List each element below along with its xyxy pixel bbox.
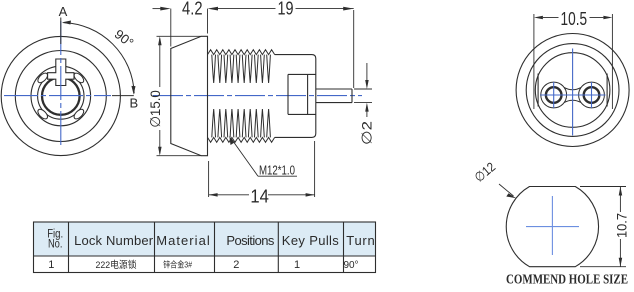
datum line A (black) (60, 18, 62, 45)
table column lines (68, 222, 70, 273)
right flat chord (606, 74, 608, 107)
hole vertical centerline (551, 196, 553, 255)
svg-text:19: 19 (278, 0, 294, 19)
keyway plus shape (48, 59, 74, 86)
rear horizontal centerline (540, 94, 606, 96)
bone waist top (564, 88, 581, 90)
svg-text:M12*1.0: M12*1.0 (259, 164, 295, 178)
notch oval top-left (36, 71, 49, 84)
svg-text:∅2: ∅2 (358, 121, 374, 145)
rear view outer circle (516, 34, 629, 147)
front view notch ring (38, 73, 84, 119)
svg-text:COMMEND HOLE SIZE: COMMEND HOLE SIZE (506, 273, 628, 288)
front view plug circle (42, 77, 80, 115)
dimension 4.2 (153, 9, 208, 47)
svg-text:Positions: Positions (226, 233, 275, 248)
rear vertical centerline (572, 49, 574, 136)
M12 leader line (232, 139, 259, 176)
svg-text:B: B (129, 96, 138, 111)
rear view inner circle (526, 44, 619, 137)
svg-text:1: 1 (48, 259, 54, 271)
notch oval top-right (72, 71, 85, 84)
dimension 14 (209, 141, 315, 197)
hole horizontal centerline (526, 226, 579, 228)
dimension 19 (217, 9, 354, 88)
svg-text:10.7: 10.7 (614, 213, 630, 238)
svg-text:No.: No. (48, 239, 63, 251)
datum tick at B (112, 95, 134, 97)
bone waist bottom (564, 100, 581, 102)
svg-text:222电源锁: 222电源锁 (96, 259, 137, 271)
thread grooves upper (212, 55, 271, 83)
rear body circle (535, 53, 610, 128)
bone outline left lobe (541, 82, 567, 108)
bone outline right lobe (579, 82, 605, 108)
table outer border (34, 222, 376, 273)
svg-text:14: 14 (250, 186, 269, 207)
svg-text:1: 1 (294, 259, 300, 271)
90 degree arc (63, 23, 134, 94)
dimension 10.7 (580, 187, 626, 267)
hole outline (circle with flats) (506, 187, 598, 267)
tail shaft (316, 89, 352, 103)
right eyelet (584, 87, 600, 103)
arc arrowhead at A (62, 21, 71, 25)
left eyelet vertical tick (553, 82, 555, 108)
front view inner bezel circle (15, 51, 106, 142)
front view vertical centerline (60, 21, 62, 146)
cam stop block (288, 74, 316, 114)
svg-text:Lock Number: Lock Number (74, 233, 154, 248)
thread crest lower (208, 137, 275, 142)
svg-text:10.5: 10.5 (561, 8, 588, 29)
svg-text:4.2: 4.2 (182, 0, 203, 19)
notch oval bottom-right (72, 108, 85, 121)
dimension phi2 (354, 63, 372, 117)
svg-text:2: 2 (233, 259, 239, 271)
left eyelet (546, 87, 562, 103)
front view face circle (31, 66, 91, 126)
table header background (34, 222, 376, 256)
right eyelet vertical tick (591, 82, 593, 108)
front view outer bezel circle (1, 36, 120, 155)
body behind threads (275, 55, 316, 138)
svg-text:Turn: Turn (346, 233, 375, 248)
front view horizontal centerline (4, 95, 111, 97)
dimension phi15 line (157, 36, 202, 155)
svg-text:Material: Material (156, 233, 210, 248)
thread crest upper (208, 50, 275, 55)
svg-text:A: A (59, 4, 68, 19)
phi12 leader (499, 184, 514, 196)
dimension 10.5 (534, 14, 613, 109)
arc arrowhead at B (131, 86, 135, 95)
svg-text:90°: 90° (343, 260, 358, 271)
svg-text:锌合金3#: 锌合金3# (163, 260, 192, 270)
phi15 arrowheads (158, 36, 162, 155)
left flat chord (537, 74, 539, 107)
svg-text:Key Pulls: Key Pulls (282, 233, 340, 248)
lock head (bezel) profile (171, 36, 208, 155)
notch oval bottom-left (36, 108, 49, 121)
table header divider (34, 255, 376, 257)
thread grooves lower (212, 109, 271, 137)
svg-text:∅15.0: ∅15.0 (147, 90, 163, 128)
side view centerline (153, 95, 362, 97)
